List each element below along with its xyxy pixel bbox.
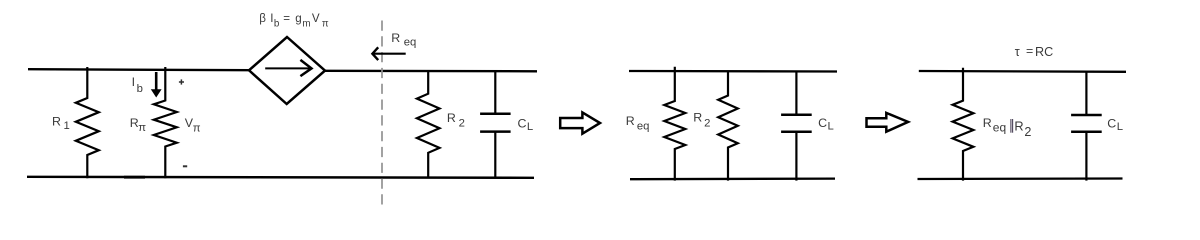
capacitor CL (middle circuit)	[781, 71, 812, 181]
svg-text:R: R	[983, 116, 992, 130]
svg-text:β: β	[259, 12, 266, 25]
svg-text:π: π	[322, 18, 329, 29]
block arrow between middle and right circuits	[867, 113, 909, 132]
dashed cut line for Req	[381, 21, 383, 206]
svg-text:C: C	[818, 116, 827, 130]
svg-text:b: b	[274, 18, 280, 29]
resistor R1	[76, 67, 99, 178]
svg-text:eq: eq	[637, 120, 650, 132]
svg-text:2: 2	[704, 118, 710, 130]
svg-text:V: V	[312, 12, 320, 25]
block arrow between left and middle circuits	[560, 112, 600, 133]
wire: middle circuit top rail	[629, 70, 837, 73]
capacitor CL (left circuit)	[480, 70, 511, 179]
value label beta*Ib = gm*Vpi	[259, 12, 329, 30]
svg-text:R: R	[52, 115, 61, 129]
resistor Rpi	[154, 67, 177, 178]
svg-text:1: 1	[64, 120, 70, 132]
svg-text:g: g	[295, 12, 301, 25]
svg-text:eq: eq	[404, 37, 417, 49]
svg-text:C: C	[518, 116, 527, 130]
svg-text:π: π	[193, 123, 201, 135]
svg-text:τ: τ	[1015, 45, 1020, 59]
dependent current source U1 diamond	[249, 37, 325, 104]
resistor R2 (left circuit)	[417, 70, 440, 179]
arrow inside current source	[265, 60, 311, 76]
svg-text:R: R	[447, 111, 456, 125]
label minus sign of Vpi	[183, 165, 187, 167]
svg-text:I: I	[132, 75, 135, 89]
svg-text:2: 2	[459, 118, 465, 130]
wire: right circuit top rail	[919, 70, 1126, 73]
resistor Req parallel R2 (right circuit)	[953, 68, 974, 181]
svg-text:R: R	[626, 114, 635, 128]
svg-text:m: m	[302, 18, 310, 29]
svg-text:π: π	[138, 122, 146, 134]
svg-text:C: C	[1107, 116, 1116, 130]
label plus sign of Vpi	[179, 79, 184, 84]
svg-text:=: =	[1026, 44, 1033, 58]
svg-text:=: =	[283, 12, 290, 25]
capacitor CL (right circuit)	[1071, 71, 1102, 181]
current arrow Ib	[151, 72, 162, 98]
wire: right circuit bottom rail	[918, 177, 1123, 180]
arrow pointing left into Req	[372, 47, 405, 60]
wire: left circuit bottom rail	[27, 177, 534, 178]
svg-text:R: R	[1014, 119, 1023, 134]
wire: middle circuit bottom rail	[630, 177, 835, 180]
wire: left circuit top rail, left segment to diamond	[28, 69, 250, 70]
svg-text:b: b	[137, 83, 143, 95]
svg-text:RC: RC	[1035, 45, 1053, 59]
svg-text:R: R	[693, 111, 702, 125]
resistor Req (middle circuit)	[664, 67, 685, 181]
svg-text:2: 2	[1024, 125, 1031, 139]
svg-text:L: L	[527, 121, 533, 133]
wire: bottom rail overlap joint	[124, 176, 145, 179]
svg-text:eq: eq	[993, 120, 1006, 134]
resistor R2 (middle circuit)	[718, 71, 738, 181]
svg-text:L: L	[828, 120, 834, 132]
label Req parallel R2	[983, 116, 1032, 139]
wire: left circuit top rail, right segment from diamond	[324, 70, 537, 73]
svg-text:L: L	[1117, 121, 1123, 133]
svg-text:R: R	[391, 31, 400, 45]
